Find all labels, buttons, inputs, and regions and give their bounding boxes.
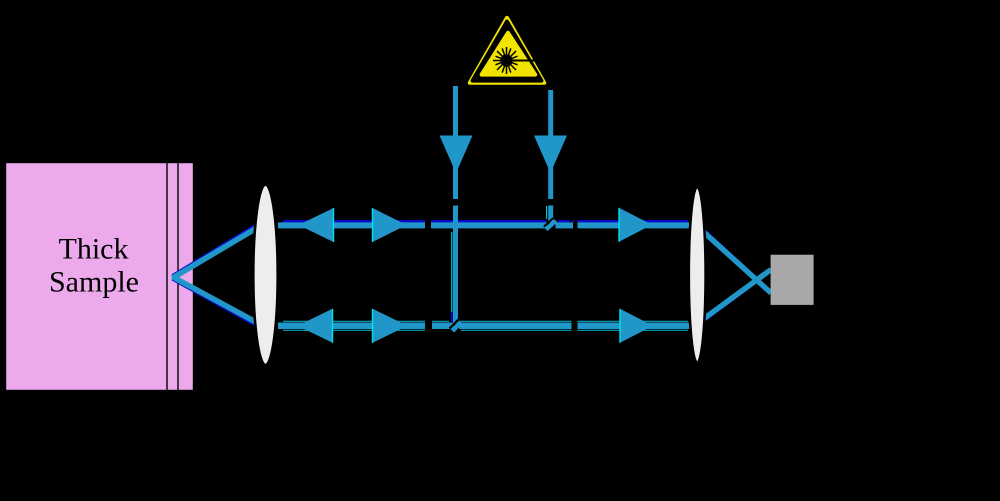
left focus cone upper beam — [173, 223, 267, 279]
sample layer line 2 — [177, 162, 179, 391]
laser warning sign inner yellow triangle — [482, 33, 536, 75]
bottom beam right-pointing arrow (right) — [620, 309, 653, 343]
bottom beam cyan edge lines — [283, 321, 688, 330]
laser warning sign black band triangle — [473, 22, 542, 81]
cyan fringe on left vertical — [451, 232, 453, 312]
left focus cone lower beam navy edge — [172, 280, 266, 332]
top beam blue band — [278, 222, 690, 228]
black slash cut at bottom junction — [450, 319, 459, 328]
right focus lower beam — [697, 270, 771, 324]
top beam right-pointing arrow (right) — [619, 208, 652, 242]
left focus cone upper beam navy edge — [172, 218, 266, 275]
right collection lens — [689, 187, 706, 363]
mirror diagonal at bottom junction — [453, 322, 462, 331]
right focus upper beam navy edge — [697, 223, 770, 290]
laser input vertical line left — [453, 86, 458, 323]
detector gray square — [771, 255, 814, 305]
black slash cut at top-right junction — [544, 218, 553, 227]
down arrow head left — [440, 136, 473, 174]
bottom beam left-pointing arrow — [298, 309, 333, 343]
laser warning sign outer yellow rim — [470, 18, 544, 83]
navy fringe at left vertical bottom — [451, 312, 453, 322]
right focus lower beam navy edge — [697, 272, 770, 327]
left objective lens — [253, 185, 277, 365]
laser beam line in symbol — [512, 60, 536, 62]
top beam left-pointing arrow — [299, 208, 334, 242]
left focus cone lower beam — [173, 277, 267, 328]
svg-text:Sample: Sample — [49, 266, 139, 299]
laser starburst symbol — [493, 47, 536, 74]
thick sample box — [5, 162, 194, 391]
sample layer line 1 — [166, 162, 168, 391]
bottom beam right-pointing arrow (left pair) — [373, 309, 408, 343]
down arrow head right — [534, 136, 567, 174]
top beam navy axis line — [283, 220, 688, 222]
right focus upper beam — [697, 226, 771, 293]
svg-text:Thick: Thick — [59, 233, 129, 266]
top beam right-pointing arrow (left pair) — [373, 208, 407, 242]
cyan fringe on right vertical — [546, 206, 548, 219]
laser input vertical line right — [548, 90, 553, 223]
mirror diagonal at top-right junction — [546, 221, 556, 230]
bottom beam blue band — [278, 323, 690, 330]
